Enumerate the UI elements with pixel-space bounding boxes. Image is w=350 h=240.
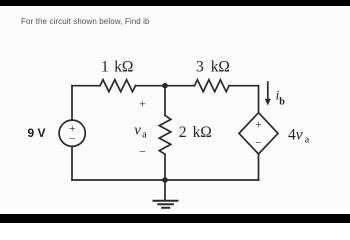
node dot top bbox=[162, 83, 168, 89]
svg-text:−: − bbox=[69, 134, 76, 146]
bottom black bar bbox=[0, 214, 350, 223]
svg-text:2kΩ: 2kΩ bbox=[179, 124, 212, 141]
voltage source V1 9V circle bbox=[59, 120, 85, 146]
dependent source U1 diamond 4va bbox=[239, 113, 278, 154]
resistor R1 1 kOhm bbox=[100, 80, 136, 92]
wire top-right horizontal bbox=[229, 85, 259, 87]
resistor R3 2 kOhm bbox=[159, 115, 171, 154]
current arrow ib bbox=[267, 82, 269, 100]
top black bar bbox=[0, 0, 350, 6]
wire left vertical upper bbox=[71, 86, 73, 120]
node dot bottom bbox=[162, 177, 168, 183]
svg-text:−: − bbox=[255, 138, 262, 150]
svg-text:+: + bbox=[255, 119, 262, 131]
current arrow head ib bbox=[265, 99, 271, 106]
wire right vertical upper bbox=[258, 86, 260, 113]
wire middle vertical upper bbox=[164, 86, 166, 116]
svg-text:a: a bbox=[142, 130, 147, 141]
wire top-middle horizontal bbox=[136, 85, 195, 87]
svg-text:4v: 4v bbox=[288, 127, 303, 144]
ground bbox=[154, 201, 178, 208]
svg-text:a: a bbox=[305, 135, 310, 146]
svg-text:b: b bbox=[279, 97, 285, 108]
svg-text:1kΩ: 1kΩ bbox=[101, 59, 133, 76]
wire middle vertical lower bbox=[164, 154, 166, 200]
svg-text:+: + bbox=[139, 96, 146, 110]
wire bottom horizontal bbox=[72, 179, 259, 181]
wire right vertical lower bbox=[258, 154, 260, 180]
resistor R2 3 kOhm bbox=[195, 80, 230, 92]
svg-text:−: − bbox=[139, 144, 146, 158]
title text bbox=[21, 17, 150, 26]
svg-text:v: v bbox=[134, 123, 141, 139]
wire top-left horizontal bbox=[72, 85, 100, 87]
svg-text:9 V: 9 V bbox=[28, 126, 46, 140]
wire left vertical lower bbox=[71, 146, 73, 180]
svg-text:3kΩ: 3kΩ bbox=[196, 59, 230, 76]
